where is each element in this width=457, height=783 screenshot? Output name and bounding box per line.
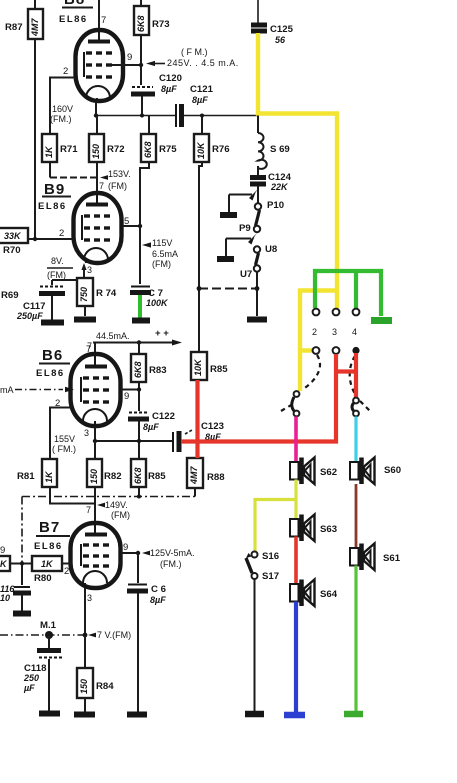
svg-text:9: 9: [123, 542, 128, 553]
svg-text:S64: S64: [320, 589, 338, 600]
annotation 8V (FM) pin3 B9: [47, 256, 92, 280]
terminal row2-3 (filled): [352, 347, 359, 354]
annotation 125V-5mA (FM): [142, 548, 195, 569]
wire blue S64 down: [294, 602, 298, 713]
svg-text:R70: R70: [3, 245, 21, 256]
svg-text:R82: R82: [104, 471, 122, 482]
svg-text:S17: S17: [262, 571, 279, 582]
node M1 line: [0, 620, 87, 639]
resistor R76 (10K): [194, 116, 230, 163]
ground C6: [127, 712, 147, 718]
svg-text:56: 56: [275, 35, 286, 45]
wire green stub under C7: [138, 295, 142, 319]
terminal U8: [254, 244, 278, 255]
capacitor C125 (56): [251, 24, 294, 45]
svg-text:C125: C125: [270, 24, 294, 35]
tube B9 label: [38, 181, 71, 212]
svg-text:U8: U8: [265, 244, 278, 255]
switch Sb (right, speaker select): [352, 398, 359, 417]
svg-text:250µF: 250µF: [16, 311, 43, 321]
capacitor C117 (250uF): [16, 280, 65, 321]
svg-text:B7: B7: [39, 519, 60, 536]
terminal U7: [240, 265, 260, 280]
speaker S62: [290, 458, 337, 485]
terminal bar blue: [284, 712, 305, 719]
resistor R85b (6K8): [131, 441, 166, 497]
terminal P9: [239, 223, 260, 234]
svg-text:C122: C122: [152, 411, 175, 422]
svg-text:S16: S16: [262, 551, 279, 562]
capacitor C121 (8uF): [176, 84, 214, 127]
switch Sa (left, speaker select): [292, 391, 300, 416]
svg-text:4M7: 4M7: [189, 465, 199, 485]
svg-text:(FM): (FM): [108, 181, 127, 191]
annotation 7V (FM): [88, 630, 131, 640]
svg-text:P9: P9: [239, 223, 251, 234]
svg-text:6K8: 6K8: [133, 361, 143, 378]
svg-text:7 V.(FM): 7 V.(FM): [97, 630, 131, 640]
svg-text:3: 3: [84, 428, 89, 438]
svg-text:S63: S63: [320, 524, 337, 535]
wire cyan to S60: [354, 417, 357, 463]
svg-text:3: 3: [87, 265, 92, 275]
svg-text:6K8: 6K8: [136, 15, 146, 32]
svg-text:U7: U7: [240, 269, 252, 280]
ground C117: [41, 320, 64, 326]
tube B6 label: [36, 344, 91, 379]
svg-text:8µF: 8µF: [150, 595, 166, 605]
svg-text:6K8: 6K8: [143, 141, 153, 158]
terminal bar black: [245, 711, 264, 718]
annotation 44.5mA + +: [87, 328, 182, 351]
svg-text:10K: 10K: [196, 141, 206, 159]
wire pin5 B9: [122, 216, 142, 228]
svg-text:M.1: M.1: [40, 620, 57, 631]
svg-text:R72: R72: [107, 144, 125, 155]
resistor R70 (33K): [0, 228, 28, 256]
svg-text:8V.: 8V.: [51, 256, 64, 266]
svg-text:33K: 33K: [4, 231, 22, 241]
annotation 115V 6.5mA (FM): [142, 238, 178, 269]
wire pin3 B8 cathode: [95, 101, 97, 116]
svg-text:R88: R88: [207, 472, 225, 483]
svg-text:R76: R76: [212, 144, 230, 155]
wire R73 to pin9 node: [140, 35, 142, 65]
wire node 288 to R85 line: [197, 286, 257, 291]
svg-text:2: 2: [312, 327, 317, 337]
wire red from terminal 3: [181, 353, 356, 458]
svg-text:9: 9: [0, 545, 5, 556]
svg-text:C121: C121: [190, 84, 214, 95]
svg-text:B9: B9: [44, 181, 65, 198]
tube B8 label: [59, 0, 106, 26]
wire yellow main run: [258, 33, 337, 391]
svg-text:7: 7: [86, 505, 91, 515]
connector pin marks: [312, 327, 357, 337]
capacitor C116: [0, 564, 31, 612]
resistor R85 (10K): [191, 289, 228, 381]
svg-text:(FM): (FM): [47, 270, 66, 280]
svg-text:9: 9: [124, 391, 129, 402]
svg-text:C 6: C 6: [151, 584, 166, 595]
capacitor C6 (8uF): [127, 553, 166, 712]
svg-text:9: 9: [127, 52, 132, 63]
annotation 155V (FM) pin3 B6: [52, 428, 89, 454]
switch S16/S17: [246, 551, 279, 582]
dash-dot mA input line: [0, 385, 74, 395]
svg-text:3: 3: [87, 593, 92, 603]
svg-text:EL86: EL86: [36, 368, 65, 379]
svg-text:R85: R85: [148, 471, 166, 482]
wire magenta to S62: [294, 417, 298, 463]
pot element U8-U7: [256, 253, 259, 265]
resistor R73 (6K8): [134, 0, 170, 35]
connector terminals row 2: [313, 347, 340, 354]
capacitor C124 (22K): [250, 166, 292, 203]
wire yellowgreen S62 to S63 and S16: [255, 480, 296, 552]
tube B7 (EL86): [71, 523, 121, 588]
svg-text:S 69: S 69: [270, 144, 290, 155]
svg-text:R83: R83: [149, 365, 167, 376]
capacitor C120 (8uF): [131, 65, 182, 116]
speaker S60: [350, 458, 401, 485]
svg-text:1K: 1K: [44, 145, 54, 158]
connector terminals row 1: [313, 309, 360, 316]
svg-text:EL86: EL86: [59, 14, 88, 25]
svg-text:245V. . 4.5 m.A.: 245V. . 4.5 m.A.: [167, 58, 239, 68]
svg-text:10: 10: [0, 593, 10, 603]
svg-text:150: 150: [79, 679, 89, 694]
inductor S69: [258, 133, 290, 169]
svg-text:22K: 22K: [270, 182, 289, 192]
wire pin7 B8 from top: [98, 0, 100, 32]
ground C116: [13, 611, 31, 617]
svg-text:150: 150: [91, 144, 101, 159]
annotation 160V (FM): [50, 104, 73, 124]
speaker S61: [350, 544, 401, 571]
svg-text:µF: µF: [23, 683, 35, 693]
svg-text:B6: B6: [42, 347, 63, 364]
annotation 245V 4.5mA arrow: [146, 47, 239, 68]
wire pin7 B6: [94, 343, 96, 357]
resistor R71 (1K): [42, 134, 78, 162]
svg-text:8µF: 8µF: [192, 95, 208, 105]
svg-text:R81: R81: [17, 471, 35, 482]
svg-text:7: 7: [99, 181, 104, 191]
wire S69 coil feed: [257, 116, 259, 134]
ground C118: [39, 711, 60, 717]
svg-text:8µF: 8µF: [143, 422, 159, 432]
ground U7: [247, 317, 267, 323]
svg-text:153V.: 153V.: [108, 169, 131, 179]
svg-text:S61: S61: [383, 553, 401, 564]
capacitor C122 (8uF): [128, 411, 175, 441]
svg-text:P10: P10: [267, 200, 284, 211]
wire pin2 B9: [28, 228, 74, 239]
svg-text:10K: 10K: [193, 358, 203, 376]
svg-text:( FM.): ( FM.): [52, 444, 76, 454]
svg-text:R85: R85: [210, 364, 228, 375]
svg-text:100K: 100K: [146, 298, 169, 308]
svg-text:750: 750: [79, 287, 89, 302]
svg-text:8µF: 8µF: [161, 84, 177, 94]
wire pin2 B6 to R81: [50, 398, 71, 459]
wire pin9 B8: [112, 52, 143, 67]
svg-text:R87: R87: [5, 22, 23, 33]
svg-text:R71: R71: [60, 144, 78, 155]
svg-text:7: 7: [101, 15, 106, 26]
annotation 153V 7 (FM): [99, 169, 131, 191]
svg-text:C123: C123: [201, 421, 224, 432]
svg-text:160V: 160V: [52, 104, 73, 114]
tube B6 (EL86): [71, 354, 121, 426]
wire brown S60 to S61: [355, 484, 358, 548]
wire coupling line y=115: [94, 113, 258, 117]
pot element P10-P9: [256, 210, 260, 226]
resistor R83 (6K8): [131, 340, 167, 411]
speaker S63: [290, 515, 337, 542]
svg-text:2: 2: [63, 66, 68, 77]
ground R74: [74, 317, 96, 323]
wire R87 down to B9 grid line: [33, 39, 37, 241]
svg-text:6.5mA: 6.5mA: [152, 249, 178, 259]
svg-text:mA: mA: [0, 385, 14, 395]
wire top feed to C125: [257, 0, 259, 23]
svg-text:250: 250: [23, 673, 39, 683]
resistor R75 (6K8): [141, 116, 177, 163]
capacitor C118 (250uF): [23, 635, 62, 711]
capacitor C123 (8uF): [173, 421, 224, 452]
svg-text:S60: S60: [384, 465, 401, 476]
wire R75 bottom down to C7: [140, 162, 149, 284]
wire pin3 B7: [85, 588, 92, 635]
resistor R82 (150): [87, 441, 122, 523]
svg-text:R69: R69: [1, 290, 19, 301]
svg-text:S62: S62: [320, 467, 337, 478]
svg-text:4: 4: [352, 327, 357, 337]
resistor R72 (150): [89, 116, 125, 163]
svg-text:(FM.): (FM.): [160, 559, 182, 569]
tube B9 (EL86): [74, 193, 122, 263]
wire pin3 B9 cathode node: [52, 266, 85, 280]
green terminal bar: [371, 317, 392, 324]
svg-text:1K: 1K: [44, 470, 54, 483]
wire U7 to ground node: [255, 272, 260, 316]
wire R71/R72 bottoms to B9 pin7: [50, 162, 97, 193]
svg-text:R 74: R 74: [96, 288, 117, 299]
svg-text:EL86: EL86: [38, 201, 67, 212]
svg-text:3: 3: [332, 327, 337, 337]
wire left branch to R79/R80 node: [21, 497, 23, 565]
terminal bar green: [344, 711, 363, 718]
svg-text:R73: R73: [152, 19, 170, 30]
svg-text:150: 150: [89, 469, 99, 484]
svg-text:155V: 155V: [54, 434, 75, 444]
speaker S64: [290, 580, 338, 607]
potentiometer U8 wiper+ground: [217, 233, 257, 259]
capacitor C7 (100K): [130, 287, 169, 309]
svg-text:1K: 1K: [41, 559, 54, 569]
resistor R84 (150): [77, 635, 114, 712]
resistor R81 (1K): [17, 459, 95, 504]
svg-text:R80: R80: [34, 573, 52, 584]
wire pin9 B7 node: [121, 542, 140, 555]
svg-text:+ +: + +: [155, 328, 169, 339]
resistor R74 (750): [77, 278, 117, 316]
potentiometer P10 terminal: [255, 200, 284, 211]
wire green S61 down: [354, 566, 357, 712]
resistor R79 (1K, clipped): [0, 545, 32, 571]
wire pin9 B6: [121, 387, 141, 402]
wire grid line y=496: [22, 495, 195, 499]
tube B8 (EL86): [76, 30, 124, 101]
svg-text:2: 2: [59, 228, 64, 239]
svg-text:125V-5mA.: 125V-5mA.: [150, 548, 195, 558]
wire black S17 down: [254, 579, 256, 711]
svg-text:C120: C120: [159, 73, 182, 84]
svg-text:R84: R84: [96, 681, 114, 692]
wire green distribution: [315, 271, 381, 316]
potentiometer P10 wiper+ground: [220, 189, 258, 215]
tube B7 label: [34, 519, 70, 552]
switch coupling dashes: [281, 355, 371, 412]
svg-text:4M7: 4M7: [30, 17, 40, 37]
svg-text:EL86: EL86: [34, 541, 63, 552]
svg-text:(FM): (FM): [152, 259, 171, 269]
ground C7: [132, 318, 150, 324]
svg-text:149V.: 149V.: [105, 500, 128, 510]
svg-text:6K8: 6K8: [133, 467, 143, 484]
wire pin3 B6 node y441: [93, 426, 172, 459]
resistor R88 (4M7): [187, 458, 225, 497]
svg-text:115V: 115V: [152, 238, 172, 248]
svg-text:(FM): (FM): [111, 510, 130, 520]
wire R76 bottom long vertical: [199, 162, 202, 289]
wire pin2 B8: [50, 66, 76, 134]
svg-text:2: 2: [64, 566, 69, 577]
svg-text:44.5mA.: 44.5mA.: [96, 331, 130, 341]
svg-text:(FM.): (FM.): [50, 114, 72, 124]
svg-text:( F M.): ( F M.): [181, 47, 208, 57]
wire red S63 to S64: [294, 537, 298, 585]
resistor R87 (4M7): [5, 0, 43, 39]
svg-text:R75: R75: [159, 144, 177, 155]
annotation 149V (FM) pin7 B7: [86, 500, 130, 520]
ground R84: [74, 712, 95, 718]
resistor R80 (1K): [32, 556, 71, 584]
